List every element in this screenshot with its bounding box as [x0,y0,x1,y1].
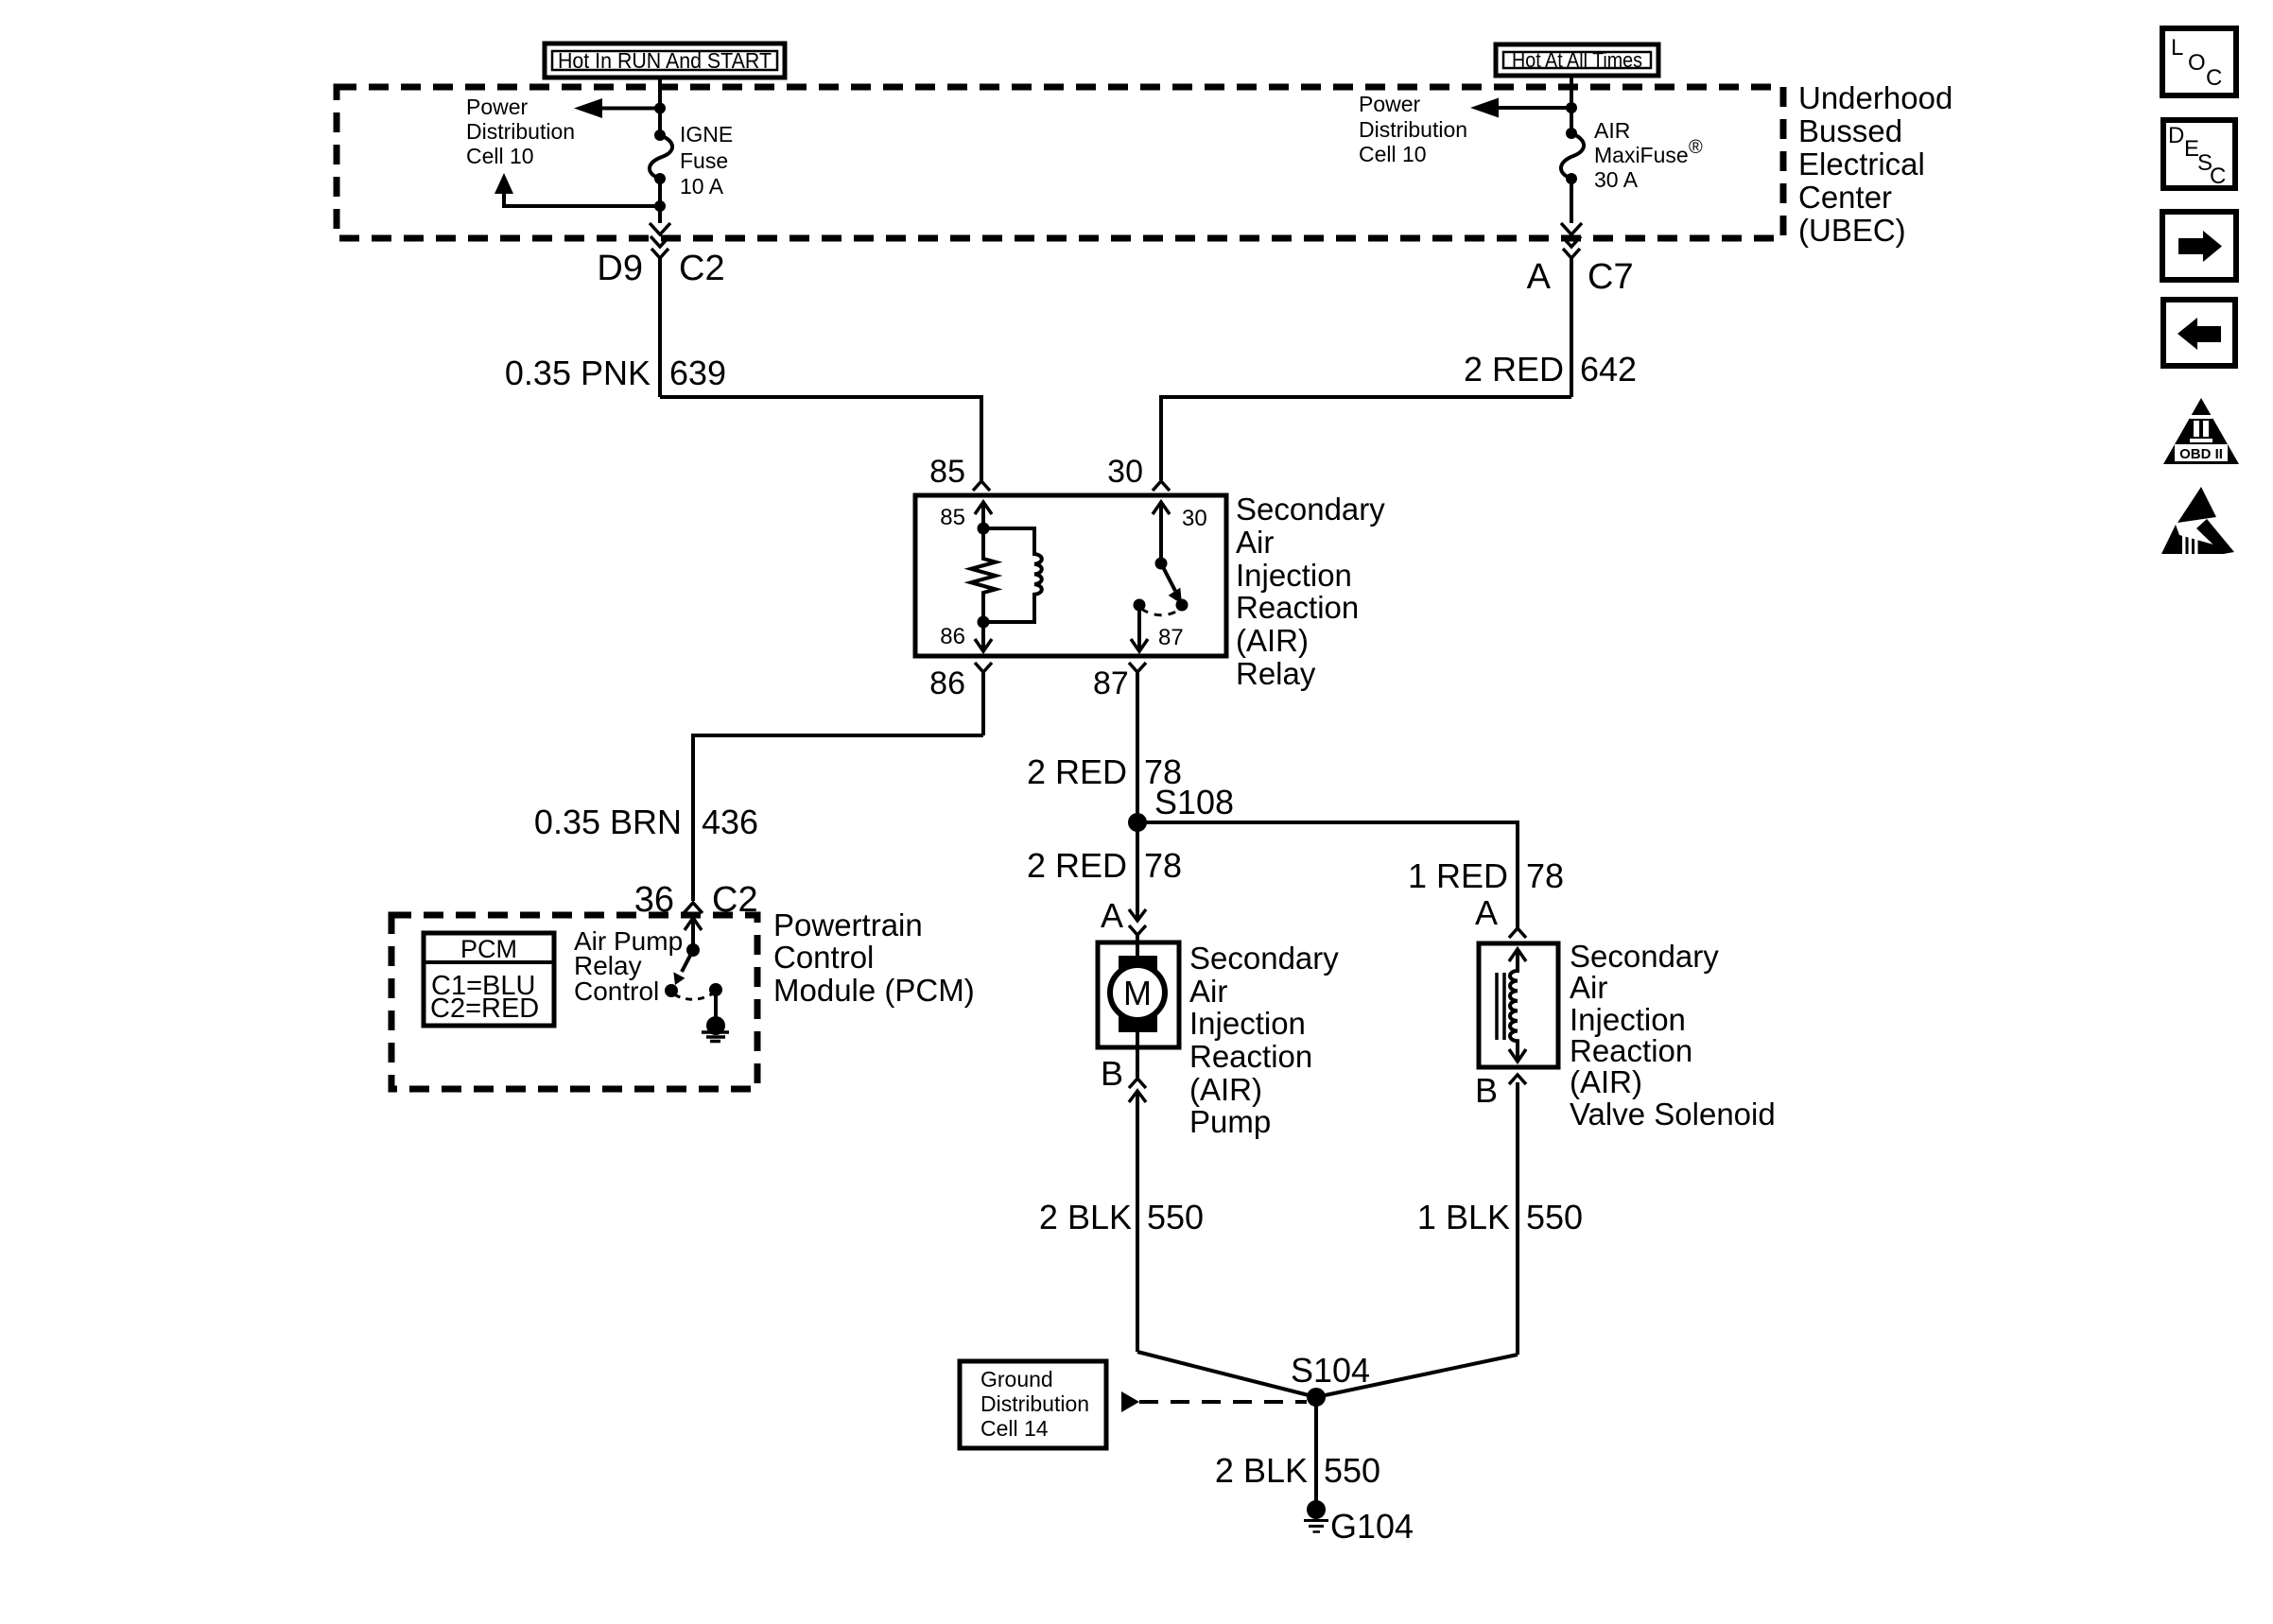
label: Underhood Bussed Electrical Center (UBEC) [1798,80,1952,248]
svg-text:A: A [1527,257,1552,297]
PCM connector legend box [424,933,554,1026]
svg-text:G104: G104 [1330,1507,1414,1546]
wire: arrow to Power Distribution (right) [1470,98,1571,118]
svg-text:Bussed: Bussed [1798,113,1902,148]
pin label A (pump) [1101,896,1123,935]
svg-text:78: 78 [1144,846,1182,885]
pin label D9 / C2 [597,249,724,288]
resistor (relay internal) [971,528,996,622]
wire label: 0.35 BRN 436 [534,803,758,841]
wire label: 2 BLK 550 (ground lead) [1215,1451,1380,1490]
svg-text:Ground: Ground [980,1367,1053,1391]
label box: Ground Distribution Cell 14 [960,1361,1106,1448]
svg-text:639: 639 [669,354,726,392]
connector C7 pin A fork [1563,249,1580,397]
svg-text:550: 550 [1324,1451,1380,1490]
wire: fuse output down to connector C7 [1561,179,1582,247]
icon: DESC box [2163,120,2235,189]
fuse F2 AIR MaxiFuse 30A [1561,128,1584,184]
pin label 87 (below relay) [1093,665,1129,701]
svg-text:Injection: Injection [1236,558,1352,593]
connector fork under relay pin 86 [975,663,992,735]
svg-text:C2: C2 [679,249,725,288]
wire label: 2 RED 78 (below S108) [1027,846,1182,885]
wire label: 0.35 PNK 639 [505,354,726,392]
pin label 30 (outside relay) [1107,454,1143,490]
svg-text:87: 87 [1093,665,1129,701]
connector fork at relay pin 85 [973,481,990,491]
connector fork at solenoid pin A [1509,928,1526,938]
svg-text:Control: Control [773,940,874,975]
wire label: 2 RED 78 (above S108) [1027,752,1182,791]
relay pin 86 internal arrow [975,622,992,651]
svg-text:2 RED: 2 RED [1464,350,1564,389]
svg-text:Secondary: Secondary [1570,939,1719,974]
label: relay title [1236,492,1385,691]
svg-text:(AIR): (AIR) [1570,1064,1642,1099]
pin label 85 (inside) [940,505,965,530]
connector fork at relay pin 30 [1153,481,1170,491]
node: PCM switch contact dot [665,984,678,997]
svg-text:®: ® [1689,137,1703,158]
pin label A / C7 [1527,257,1634,297]
coil L1 (relay winding) [983,528,1042,622]
motor M symbol [1110,942,1165,1047]
node label: G104 [1330,1507,1414,1546]
svg-text:Hot At All Times: Hot At All Times [1512,48,1642,72]
power label box: Hot At All Times [1496,44,1658,76]
svg-text:Power: Power [466,95,529,119]
connector fork under solenoid pin B [1509,1075,1526,1355]
relay K1 box: Secondary Air Injection Reaction (AIR) Relay [915,495,1226,656]
node: pin 87 contact dot [1134,599,1146,612]
label: Secondary Air Injection Reaction (AIR) Pump [1189,941,1339,1139]
relay switch lever arm [1161,563,1182,604]
svg-text:0.35 BRN: 0.35 BRN [534,803,682,841]
wire label: 2 BLK 550 (pump side) [1039,1198,1204,1236]
svg-text:Distribution: Distribution [1359,117,1467,142]
svg-text:D: D [2168,123,2184,148]
wire label: 1 RED 78 [1408,856,1564,895]
node: switch pivot dot [1155,558,1168,570]
node: splice S108 [1128,813,1147,832]
svg-text:C: C [2206,65,2222,91]
pin label 36 / C2 (PCM) [634,880,758,920]
icon: OBD II triangle [2163,398,2239,464]
svg-text:B: B [1475,1071,1498,1110]
dashed reference arrow to S104 [1121,1391,1307,1412]
svg-text:MaxiFuse: MaxiFuse [1594,143,1689,167]
label: Secondary Air Injection Reaction (AIR) Valve Solenoid [1570,939,1776,1132]
svg-text:87: 87 [1158,625,1184,650]
wire arrow into pump pin A [1129,822,1146,942]
svg-text:O: O [2188,50,2206,76]
node label: S108 [1154,783,1234,821]
svg-text:2 RED: 2 RED [1027,752,1127,791]
svg-text:C: C [2210,164,2226,189]
label: IGNE Fuse 10 A [680,122,733,199]
wire: Hot In RUN feed into UBEC [658,78,662,134]
svg-text:C2=RED: C2=RED [430,993,539,1024]
svg-text:Secondary: Secondary [1236,492,1385,527]
connector fork under pump pin B [1129,1047,1146,1088]
icon: back arrow box [2163,300,2235,366]
svg-text:S104: S104 [1291,1351,1370,1390]
node: PCM driver pivot dot [686,943,700,957]
node: junction dot right feed [1566,102,1577,113]
pin label 86 (inside) [940,624,965,649]
wire label: 1 BLK 550 (solenoid side) [1417,1198,1583,1236]
svg-text:D9: D9 [597,249,643,288]
wire: PNK 639 run to relay pin 85 [660,397,981,480]
node: relay coil top junction [978,523,990,535]
node: relay coil bottom junction [978,616,990,629]
ground symbol inside PCM [702,990,729,1042]
svg-text:86: 86 [940,624,965,649]
node: splice S104 [1307,1388,1326,1407]
svg-text:PCM: PCM [460,935,517,963]
svg-text:(UBEC): (UBEC) [1798,213,1906,248]
svg-text:1 BLK: 1 BLK [1417,1198,1510,1236]
svg-text:Reaction: Reaction [1236,590,1359,625]
svg-text:B: B [1101,1054,1123,1093]
node: ground-side contact dot [709,983,722,996]
relay pin 87 internal arrow [1131,605,1148,651]
svg-text:A: A [1101,896,1123,935]
svg-text:Air: Air [1570,970,1607,1005]
svg-text:Distribution: Distribution [466,119,575,144]
svg-text:Cell 10: Cell 10 [466,144,534,168]
svg-text:Air: Air [1236,525,1274,560]
svg-text:A: A [1475,893,1498,932]
node: junction dot below fuse [654,200,666,212]
svg-text:30 A: 30 A [1594,167,1639,192]
svg-text:10 A: 10 A [680,174,724,199]
svg-text:2 BLK: 2 BLK [1039,1198,1132,1236]
PCM internal up arrow (pin 36) [685,918,702,950]
svg-text:Relay: Relay [1236,656,1316,691]
node label: S104 [1291,1351,1370,1390]
svg-text:OBD II: OBD II [2179,446,2223,462]
svg-text:Center: Center [1798,180,1892,215]
wire: pump ground lead to S104 [1137,1352,1316,1397]
svg-text:30: 30 [1107,454,1143,490]
pin label 85 (outside relay) [929,454,965,490]
node: lever end dot [1176,599,1189,612]
connector fork at PCM pin 36 [684,903,703,913]
svg-text:436: 436 [702,803,758,841]
PCM dashed enclosure box [391,915,757,1089]
svg-text:L: L [2171,35,2183,60]
svg-text:(AIR): (AIR) [1236,623,1309,658]
pin label 30 (inside) [1182,506,1207,531]
svg-text:550: 550 [1147,1198,1204,1236]
power label box: Hot In RUN And START [545,43,785,78]
svg-text:M: M [1123,974,1152,1012]
wire arrow up to pump pin B [1129,1091,1146,1352]
ground G104 symbol [1304,1500,1328,1532]
svg-text:AIR: AIR [1594,118,1630,143]
relay pin 85 internal arrow [975,502,992,528]
label: Power Distribution Cell 10 (right) [1359,92,1467,166]
svg-text:Cell 14: Cell 14 [980,1416,1049,1441]
svg-text:78: 78 [1526,856,1564,895]
svg-text:Cell 10: Cell 10 [1359,142,1427,166]
svg-text:85: 85 [940,505,965,530]
svg-text:Injection: Injection [1570,1002,1686,1037]
fuse F1 IGNE 10A [650,130,672,184]
wire: fuse output down to connector C2 [650,179,670,247]
pin label B (solenoid) [1475,1071,1498,1110]
pin label A (solenoid) [1475,893,1498,932]
label: Power Distribution Cell 10 (left) [466,95,575,168]
svg-text:S108: S108 [1154,783,1234,821]
wire: solenoid ground lead to S104 [1316,1355,1518,1397]
svg-text:Powertrain: Powertrain [773,907,923,942]
icon: LOC box [2162,28,2236,95]
AIR valve solenoid box [1479,943,1558,1067]
svg-text:IGNE: IGNE [680,122,733,147]
PCM driver switch lever [673,950,693,985]
svg-text:2 RED: 2 RED [1027,846,1127,885]
svg-text:Reaction: Reaction [1189,1039,1312,1074]
svg-text:642: 642 [1580,350,1637,389]
dashed travel arc of PCM switch [674,993,713,999]
svg-text:2 BLK: 2 BLK [1215,1451,1308,1490]
icon: forward arrow box [2162,212,2236,280]
icon: ESD warning triangle [2161,487,2234,554]
AIR pump motor M1 box [1098,942,1179,1047]
svg-text:1 RED: 1 RED [1408,856,1508,895]
svg-text:Power: Power [1359,92,1421,116]
pin label 87 (inside) [1158,625,1184,650]
wire: RED 642 run to relay pin 30 [1161,397,1571,480]
label: AIR MaxiFuse (R) 30 A [1594,118,1703,192]
label: Air Pump Relay Control [574,926,683,1006]
svg-text:C7: C7 [1588,257,1634,297]
svg-text:Valve Solenoid: Valve Solenoid [1570,1097,1776,1132]
svg-text:Underhood: Underhood [1798,80,1952,115]
pin label B (pump) [1101,1054,1123,1093]
svg-text:85: 85 [929,454,965,490]
svg-text:30: 30 [1182,506,1207,531]
svg-text:0.35 PNK: 0.35 PNK [505,354,651,392]
connector C2 pin D9 fork [651,249,668,397]
svg-text:Distribution: Distribution [980,1391,1089,1416]
svg-text:86: 86 [929,665,965,701]
label: Powertrain Control Module (PCM) [773,907,975,1008]
svg-text:Fuse: Fuse [680,148,728,173]
relay pin 30 internal arrow [1153,502,1170,563]
wire: branch to Power Distribution cell 10 (up arrow) [495,173,660,206]
dashed travel arc of switch [1141,609,1180,615]
solenoid coil symbol [1497,949,1526,1062]
wire: Hot At All Times feed into UBEC [1570,76,1573,132]
svg-text:Air: Air [1189,974,1227,1009]
UBEC dashed enclosure box [337,87,1783,238]
svg-text:Reaction: Reaction [1570,1033,1692,1068]
pin label 86 (below relay) [929,665,965,701]
svg-text:Control: Control [574,976,659,1006]
svg-text:Secondary: Secondary [1189,941,1339,976]
wire: BRN 436 run from relay 86 to PCM [693,735,983,901]
node: junction dot left feed [654,103,666,114]
svg-text:Electrical: Electrical [1798,147,1925,181]
wire label: 2 RED 642 [1464,350,1637,389]
svg-text:Injection: Injection [1189,1006,1306,1041]
svg-text:Pump: Pump [1189,1104,1271,1139]
wire: S104 down to G104 [1314,1397,1318,1501]
svg-text:(AIR): (AIR) [1189,1072,1262,1107]
svg-text:550: 550 [1526,1198,1583,1236]
svg-text:Hot In RUN And START: Hot In RUN And START [558,48,772,73]
wire: arrow to Power Distribution (left) [574,98,660,118]
wire: S108 branch to solenoid [1137,822,1518,928]
svg-text:Module (PCM): Module (PCM) [773,973,975,1008]
connector fork under relay pin 87 [1129,663,1146,822]
